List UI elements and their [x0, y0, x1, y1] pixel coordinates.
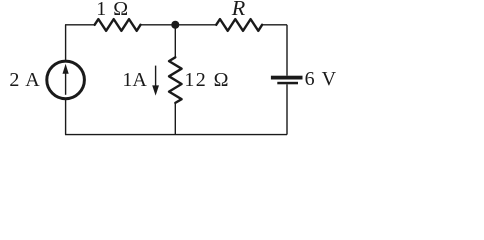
svg-text:2 A: 2 A [9, 69, 40, 91]
current label arrowhead (down) [152, 85, 159, 95]
resistor R1 1 Ohm zigzag [95, 19, 141, 31]
current source arrowhead [63, 64, 69, 74]
svg-text:6 V: 6 V [305, 68, 338, 90]
svg-text:12 Ω: 12 Ω [184, 69, 229, 91]
battery V1 short plate [277, 82, 298, 85]
resistor R2 12 Ohm vertical zigzag [169, 57, 182, 103]
wire right vertical lower [286, 84, 288, 134]
current source arrow stem [65, 73, 67, 95]
current source I1 circle [47, 61, 85, 99]
wire left vertical upper [65, 25, 67, 60]
wire middle vertical upper [174, 25, 176, 58]
wire middle vertical lower [174, 103, 176, 135]
svg-text:1A: 1A [122, 69, 147, 91]
wire bottom horizontal [65, 134, 287, 136]
wire top-left horizontal [65, 24, 95, 26]
battery V1 long plate [271, 76, 303, 80]
wire top-middle horizontal [141, 24, 217, 26]
current label arrow stem (1A down) [155, 66, 157, 88]
svg-text:R: R [231, 0, 246, 20]
wire top-right horizontal [262, 24, 287, 26]
wire right vertical upper [286, 25, 288, 76]
svg-text:1 Ω: 1 Ω [96, 0, 129, 20]
wire left vertical lower [65, 100, 67, 135]
node junction dot [171, 21, 179, 29]
resistor R zigzag [216, 19, 262, 31]
